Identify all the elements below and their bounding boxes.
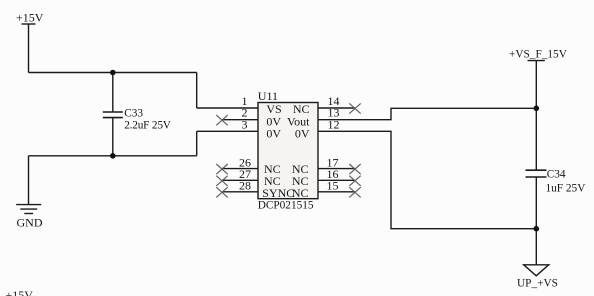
- svg-text:DCP021515: DCP021515: [258, 200, 314, 212]
- svg-text:SYNC: SYNC: [262, 186, 294, 200]
- svg-text:1uF 25V: 1uF 25V: [546, 183, 587, 195]
- svg-text:C34: C34: [547, 169, 566, 181]
- svg-text:NC: NC: [292, 186, 309, 200]
- svg-text:3: 3: [242, 117, 248, 131]
- svg-text:+VS_F_15V: +VS_F_15V: [509, 48, 568, 60]
- svg-text:GND: GND: [17, 216, 43, 230]
- svg-text:15: 15: [327, 179, 339, 193]
- svg-text:28: 28: [239, 179, 251, 193]
- svg-text:0V: 0V: [295, 126, 310, 140]
- svg-text:12: 12: [328, 117, 340, 131]
- svg-text:2.2uF 25V: 2.2uF 25V: [124, 120, 172, 132]
- svg-text:+15V: +15V: [16, 11, 44, 25]
- svg-text:+15V: +15V: [6, 288, 34, 296]
- svg-text:UP_+VS: UP_+VS: [517, 278, 558, 290]
- svg-text:0V: 0V: [266, 126, 281, 140]
- svg-text:C33: C33: [124, 108, 143, 120]
- svg-text:U11: U11: [258, 89, 278, 103]
